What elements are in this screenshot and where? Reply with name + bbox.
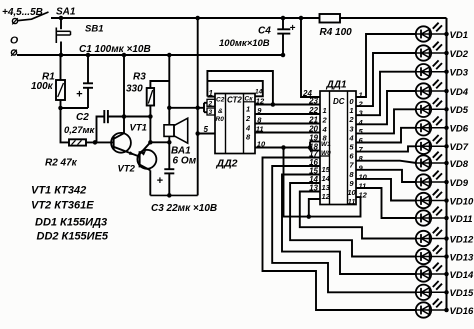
wire DD2 feedback loop outer (pin1 to pin12 net): [207, 71, 273, 105]
svg-text:R3: R3: [133, 72, 146, 83]
wire DD1 pin 16 to VD15: [272, 166, 416, 292]
switch SA1 blade: [18, 12, 49, 21]
junction gnd bus / pin12 stub: [307, 214, 312, 219]
svg-text:19: 19: [309, 134, 318, 143]
svg-text:+: +: [290, 23, 296, 34]
junction speaker bottom / C3 top: [167, 140, 172, 145]
svg-text:21: 21: [308, 116, 318, 125]
svg-text:VD3: VD3: [450, 68, 469, 79]
svg-text:VD6: VD6: [450, 124, 469, 135]
wire +5V top rail left of R4: [51, 17, 320, 19]
svg-text:23: 23: [308, 97, 318, 106]
LED VD16: [416, 299, 449, 318]
wire DD2 pin 10 (gnd): [255, 147, 310, 149]
LED VD3: [416, 60, 449, 79]
wire DD1 pin 8 to VD8: [356, 161, 416, 163]
svg-text:С1 100мк ×10В: С1 100мк ×10В: [79, 44, 151, 55]
svg-text:VD12: VD12: [450, 234, 474, 245]
svg-text:15: 15: [322, 165, 331, 174]
speaker BA1: [164, 55, 188, 169]
svg-text:VD2: VD2: [450, 49, 469, 60]
LED VD12: [416, 227, 449, 246]
svg-text:4: 4: [358, 118, 364, 127]
capacitor C2: [97, 110, 151, 142]
svg-text:ДД2: ДД2: [216, 158, 238, 170]
junction feedback loop on pin12 wire: [271, 102, 276, 107]
junction 0V rail end / C4 bottom: [281, 53, 286, 58]
wire DD1 W1 W0 tie: [310, 142, 320, 151]
wire DD2 pins 2,3 tie vertical: [204, 103, 207, 112]
svg-text:VD9: VD9: [450, 178, 469, 189]
svg-text:С3 22мк ×10В: С3 22мк ×10В: [151, 203, 217, 214]
svg-text:11: 11: [359, 182, 367, 191]
svg-text:14: 14: [255, 89, 263, 96]
svg-text:R4 100: R4 100: [320, 27, 353, 38]
svg-text:SB1: SB1: [85, 24, 103, 35]
junction R1 bottom node: [58, 106, 63, 111]
svg-text:13: 13: [322, 183, 331, 192]
LED VD6: [416, 117, 449, 136]
svg-text:DC: DC: [333, 97, 345, 106]
svg-text:22: 22: [308, 106, 318, 115]
wire DD1 pin 7 to VD7: [356, 146, 416, 151]
LED VD5: [416, 98, 449, 117]
pushbutton SB1: [56, 18, 70, 55]
capacitor C1 (electrolytic): [83, 55, 93, 108]
op IC DD1 left column divider: [320, 155, 330, 157]
junction pin10 / gnd vertical: [281, 145, 286, 150]
junction 0V rail / speaker vertical: [167, 53, 172, 58]
svg-text:12: 12: [322, 192, 331, 201]
svg-text:330: 330: [126, 84, 143, 95]
pin boxes DD2 pins 2,3: [207, 99, 215, 116]
wire DD1 pin 12 left stub: [309, 199, 320, 217]
LED VD14: [416, 263, 449, 282]
svg-text:Ск: Ск: [245, 96, 254, 103]
svg-text:1: 1: [323, 106, 327, 115]
junction 0V rail / SB1-R1: [59, 53, 64, 58]
op IC DD2 right header divider: [244, 101, 256, 103]
capacitor C4 (electrolytic): [277, 18, 290, 55]
svg-text:1: 1: [359, 91, 363, 100]
svg-text:2: 2: [358, 100, 364, 109]
svg-text:VD11: VD11: [450, 214, 473, 225]
svg-text:100к: 100к: [31, 81, 54, 92]
wire DD1 pin 3 to VD3: [356, 72, 416, 116]
svg-text:100мк×10В: 100мк×10В: [219, 38, 270, 49]
svg-text:ДД1: ДД1: [326, 80, 347, 91]
wire DD2 pin 8 to DD1: [255, 123, 320, 125]
node 0V terminal: [11, 50, 17, 56]
svg-text:С2: С2: [76, 112, 89, 123]
wire mid vertical +5V to bottom rail: [197, 18, 199, 195]
wire DD2 pins 2,3 to speaker node: [169, 107, 204, 109]
wire DD2 pin 5: [198, 133, 215, 135]
svg-text:1: 1: [246, 104, 250, 113]
svg-text:&: &: [218, 108, 223, 115]
wire DD1 pin 2 to VD2: [356, 53, 416, 106]
svg-text:DD2 К155ИЕ5: DD2 К155ИЕ5: [37, 231, 109, 243]
resistor R1: [56, 55, 65, 108]
wire DD1 pin 9 to VD9: [356, 170, 416, 182]
wire DD2 pin 11 to DD1: [255, 132, 320, 134]
junction R3/VT2 emitter node: [148, 140, 153, 145]
svg-text:10: 10: [359, 172, 368, 181]
op IC DD2 K155IE5 body: [215, 94, 255, 154]
LED VD10: [416, 189, 449, 208]
svg-text:10: 10: [347, 188, 356, 197]
junction top rail / DD1 pin24: [299, 16, 304, 21]
wire ground bus (DD2 pin10 / DD1 pin12): [284, 148, 361, 217]
svg-text:VD10: VD10: [450, 196, 474, 207]
svg-text:VD1: VD1: [450, 30, 468, 41]
junction C2/R3 bottom: [148, 114, 153, 119]
junction 0V rail / C1: [86, 53, 91, 58]
svg-text:SA1: SA1: [56, 7, 76, 18]
svg-text:VT2 КТ361Е: VT2 КТ361Е: [31, 200, 94, 212]
junction C2/VT1 collector: [122, 114, 127, 119]
wire DD2 pin 1 row: [207, 96, 215, 98]
svg-text:W1: W1: [321, 141, 331, 148]
svg-text:VD8: VD8: [450, 159, 469, 170]
svg-text:4: 4: [348, 133, 354, 142]
wire DD1 pin 15 to VD14: [282, 175, 416, 275]
svg-text:+: +: [76, 89, 83, 101]
junction top rail / SB1: [59, 16, 64, 21]
svg-text:+: +: [157, 175, 164, 187]
LED VD13: [416, 245, 449, 264]
svg-text:VD16: VD16: [450, 306, 474, 317]
wire DD1 pin 11 to VD11: [356, 188, 416, 218]
svg-text:W0: W0: [321, 150, 331, 157]
junction mid vertical / pins23 wire: [195, 106, 200, 111]
wire bottom rail: [150, 194, 197, 196]
junction 0V rail / VT1 collector: [122, 53, 127, 58]
LED VD9: [416, 171, 449, 190]
wire LED cathode rail: [446, 18, 448, 310]
LED VD11: [416, 207, 449, 226]
transistor VT2: [137, 142, 156, 195]
svg-text:СТ2: СТ2: [227, 96, 242, 105]
svg-text:4: 4: [245, 123, 251, 132]
svg-text:2: 2: [348, 115, 354, 124]
svg-text:DD1 К155ИД3: DD1 К155ИД3: [35, 217, 107, 229]
wire DD2 pin14 loop inner: [207, 81, 262, 96]
LED VD7: [416, 135, 449, 154]
svg-text:11: 11: [348, 197, 356, 206]
svg-text:VD4: VD4: [450, 87, 469, 98]
svg-text:R0: R0: [216, 116, 225, 123]
wire emitter node to speaker/C3: [150, 141, 169, 143]
svg-text:6 Ом: 6 Ом: [173, 156, 197, 167]
svg-text:VD5: VD5: [450, 105, 469, 116]
resistor R3: [147, 81, 170, 142]
wire DD1 pin 4 to VD4: [356, 91, 416, 124]
junction bottom rail / C3: [167, 193, 172, 198]
svg-text:2: 2: [322, 116, 328, 125]
wire DD2 pin 12 to DD1: [255, 104, 320, 106]
wire node A horizontal (R1-C1): [61, 107, 89, 109]
svg-text:VD14: VD14: [450, 270, 474, 281]
svg-text:VT1 КТ342: VT1 КТ342: [31, 185, 86, 197]
junction top rail / mid vertical: [195, 16, 200, 21]
svg-text:5: 5: [204, 125, 209, 134]
wire DD2 pin 9 to DD1: [255, 113, 320, 115]
transistor VT1: [111, 55, 140, 157]
op IC DD1 K155ID3 body: [320, 91, 356, 205]
wire DD1 pin 5 to VD5: [356, 109, 416, 133]
junction pin10 / W tie: [308, 145, 313, 150]
svg-text:14: 14: [322, 174, 331, 183]
node +4.5V supply terminal: [12, 18, 18, 24]
wire DD1 pin 6 to VD6: [356, 128, 416, 143]
svg-text:VT2: VT2: [118, 164, 136, 175]
junction speaker vertical / pins23 wire: [167, 106, 172, 111]
resistor R4: [320, 14, 341, 23]
svg-text:VD7: VD7: [450, 142, 469, 153]
wire DD1 pin 17 to VD16: [263, 158, 417, 311]
svg-text:20: 20: [308, 125, 318, 134]
LED VD1: [416, 23, 449, 42]
wire DD1 pin 13 to VD12: [300, 192, 417, 239]
svg-text:О: О: [10, 35, 18, 47]
svg-text:2: 2: [208, 101, 213, 108]
svg-text:0,27мк: 0,27мк: [64, 125, 96, 136]
svg-text:VT1: VT1: [130, 123, 147, 134]
svg-text:VD13: VD13: [450, 252, 474, 263]
LED VD4: [416, 80, 449, 99]
wire +5V top rail right of R4: [340, 17, 447, 19]
resistor R2: [69, 139, 114, 145]
svg-text:R2 47к: R2 47к: [45, 158, 78, 169]
wire DD1 pin 1 to VD1: [356, 34, 416, 97]
junction VT1 base node: [93, 140, 98, 145]
wire 0V rail: [17, 54, 283, 56]
junction top rail / C4: [281, 16, 286, 21]
capacitor C3 (electrolytic): [164, 169, 174, 195]
wire DD1 pin 10 to VD10: [356, 179, 416, 201]
svg-text:С2: С2: [216, 97, 225, 104]
LED VD15: [416, 281, 449, 300]
wire R1 node down to R2: [61, 108, 70, 142]
svg-text:С4: С4: [258, 26, 271, 37]
LED VD2: [416, 42, 449, 61]
LED VD8: [416, 152, 449, 171]
svg-text:VD15: VD15: [450, 288, 474, 299]
svg-text:2: 2: [245, 114, 251, 123]
svg-text:3: 3: [209, 109, 213, 116]
wire DD1 pin 14 to VD13: [290, 183, 416, 257]
wire DD1 pin 24 (Vcc): [301, 18, 320, 97]
junction mid vertical / pin5 wire: [195, 131, 200, 136]
svg-text:1: 1: [349, 106, 353, 115]
